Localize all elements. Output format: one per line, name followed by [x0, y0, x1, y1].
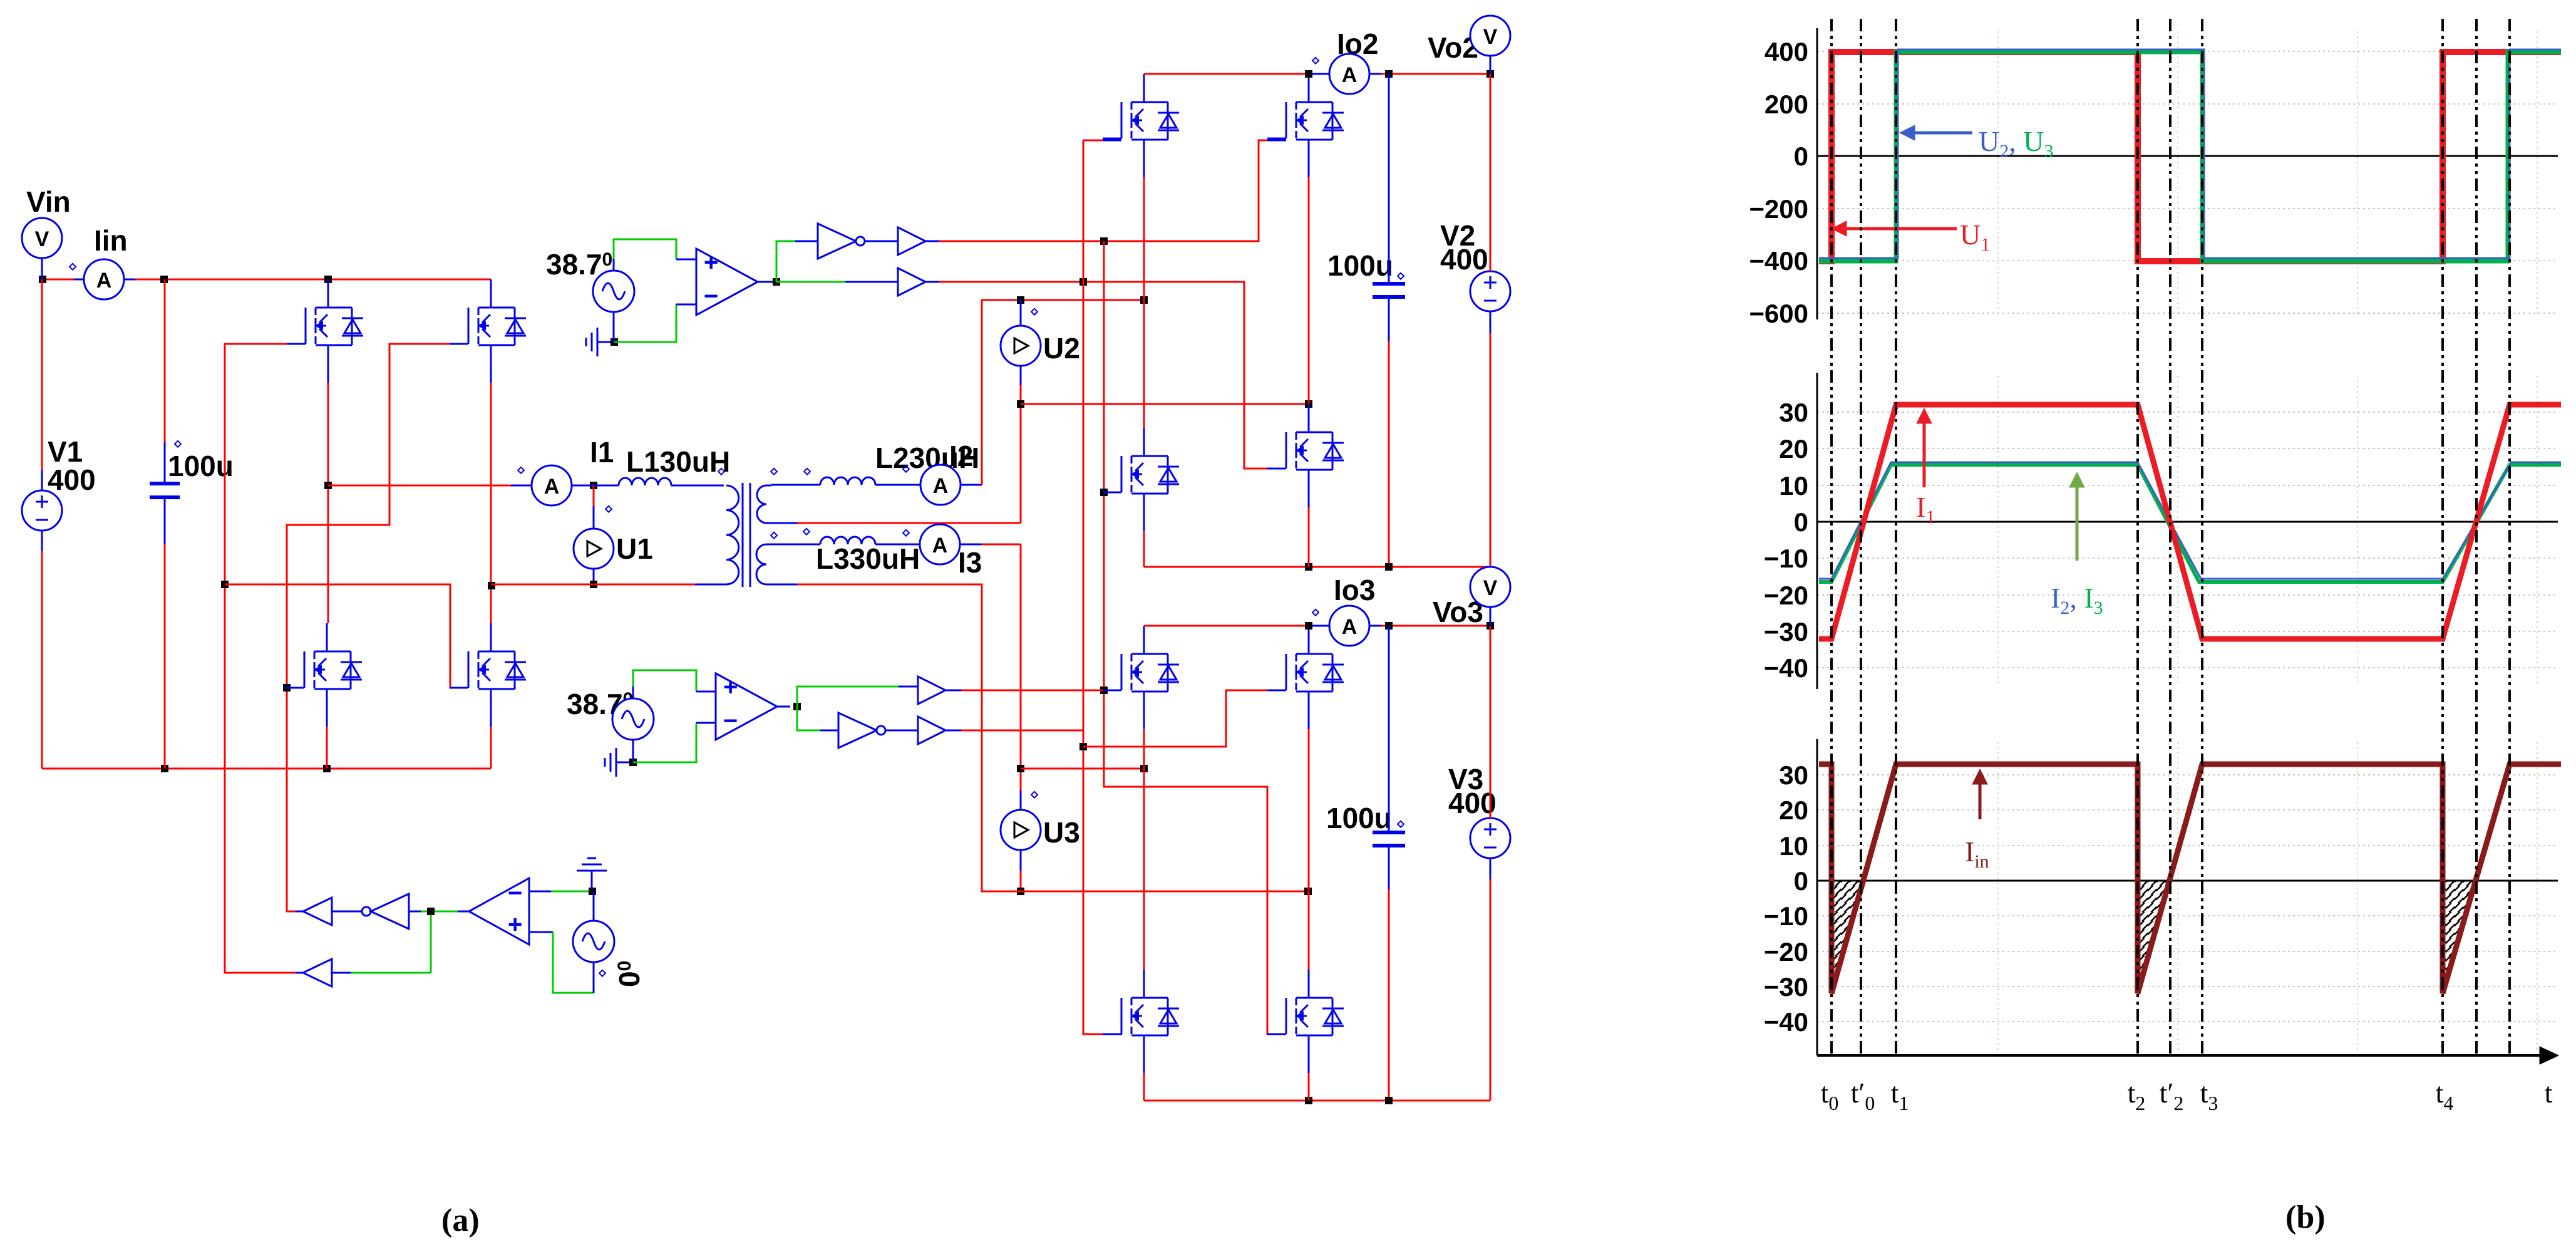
- junction: [1305, 400, 1312, 408]
- ground G3: [591, 871, 593, 891]
- wire gate net Q2Q3: [287, 344, 468, 911]
- wire L1 to transformer: [671, 485, 724, 487]
- source VS2: [612, 698, 654, 740]
- svg-text:400: 400: [1448, 787, 1497, 819]
- voltmeter U2: [1001, 326, 1041, 366]
- junction: [1100, 687, 1108, 694]
- junction: [793, 703, 801, 710]
- wire W2 bottom: [797, 522, 1021, 524]
- source V2: [1470, 271, 1510, 311]
- plot2 y-axis: [1764, 373, 1817, 689]
- transistor Q4: [450, 623, 526, 727]
- wire W2 top to L2: [771, 484, 820, 486]
- junction: [1486, 622, 1494, 630]
- svg-text:−20: −20: [1764, 581, 1808, 610]
- plot1 grid horizontal: [1817, 51, 2558, 313]
- ground G1: [597, 341, 614, 343]
- transformer T1 secondary winding 2: [757, 485, 771, 523]
- junction: [773, 278, 780, 286]
- wire Q3 source: [326, 727, 328, 769]
- svg-text:U3: U3: [1043, 816, 1080, 849]
- plot2 trace I2 blue: [1819, 462, 2561, 579]
- wire gate riser netB: [1104, 241, 1286, 1034]
- capacitor C2: [1373, 74, 1405, 567]
- svg-text:−400: −400: [1749, 246, 1808, 276]
- transistor Q3: [286, 623, 362, 727]
- source VS3: [573, 921, 614, 962]
- capacitor C1: [150, 279, 181, 769]
- plot1 trace U1 red: [1819, 52, 2561, 261]
- inverter B6i: [818, 224, 856, 259]
- wire B6i-B7: [865, 241, 898, 242]
- svg-text:−10: −10: [1764, 544, 1808, 573]
- plot1 arrow U1: [1832, 221, 1957, 236]
- svg-text:V: V: [35, 227, 49, 251]
- svg-text:(a): (a): [441, 1203, 480, 1238]
- wire VS1 bottom: [613, 312, 615, 342]
- time gridlines dash-dot: [1832, 19, 2510, 1055]
- wire VS2 top: [632, 687, 634, 698]
- wire phase3 left: [1021, 768, 1144, 770]
- svg-text:20: 20: [1779, 795, 1808, 825]
- wire Q1 gate stub: [287, 343, 306, 345]
- plot3 grid horizontal: [1817, 775, 2558, 1022]
- svg-text:10: 10: [1779, 831, 1808, 861]
- junction: [1017, 765, 1024, 772]
- svg-text:+: +: [704, 249, 718, 276]
- wire V1 branch: [41, 269, 43, 279]
- wire A2 out: [777, 706, 790, 708]
- transistor Q1: [287, 279, 363, 383]
- wire b3 left leg: [1143, 729, 1145, 970]
- wire bridge2 top rail: [1144, 73, 1309, 75]
- junction: [1385, 1097, 1393, 1104]
- wire gate run to Q4: [225, 584, 468, 688]
- svg-text:+: +: [723, 673, 738, 701]
- svg-text:A: A: [933, 474, 949, 498]
- svg-text:Vin: Vin: [26, 185, 71, 218]
- voltmeter U3: [1001, 810, 1041, 850]
- op-amp A3: [469, 878, 529, 945]
- svg-text:Io3: Io3: [1334, 574, 1375, 606]
- wire B5-B6: [885, 730, 918, 732]
- junction: [324, 276, 332, 283]
- wire bridge3 top rail: [1144, 625, 1309, 627]
- wire A1 up to B6i: [776, 241, 795, 282]
- wire Q2 gate stub: [450, 343, 468, 345]
- svg-text:30: 30: [1779, 760, 1808, 790]
- transformer T1 secondary winding 3: [756, 544, 771, 584]
- voltmeter Vin: [22, 218, 62, 269]
- wire phase A: [328, 485, 511, 487]
- svg-text:20: 20: [1779, 434, 1808, 464]
- plot3 y-axis: [1764, 739, 1817, 1055]
- junction: [221, 581, 229, 588]
- wire U3 bottom: [1020, 850, 1022, 871]
- svg-text:−200: −200: [1749, 194, 1808, 224]
- plot2 arrow I2I3: [2069, 472, 2084, 561]
- wire B6 out line: [945, 730, 961, 732]
- op-amp A2: [716, 673, 777, 740]
- svg-text:A: A: [932, 534, 948, 557]
- wire B2 in: [409, 911, 421, 913]
- inverter B2: [362, 907, 371, 916]
- buffer B3: [303, 959, 332, 987]
- wire bridge3 bottom rail: [1144, 1100, 1490, 1102]
- buffer B4: [918, 676, 945, 704]
- svg-text:30: 30: [1779, 398, 1808, 427]
- plot1 trace U3 green: [1819, 52, 2561, 261]
- junction: [1017, 296, 1024, 304]
- wire A3 out net: [431, 911, 458, 973]
- wire VS1 top: [613, 259, 615, 271]
- source VS1: [593, 271, 634, 312]
- svg-text:A: A: [1342, 615, 1358, 639]
- svg-text:L130uH: L130uH: [626, 445, 730, 478]
- junction: [1385, 70, 1393, 78]
- ground G2: [616, 762, 632, 764]
- svg-text:I3: I3: [958, 546, 982, 579]
- wire Q8 link: [1083, 690, 1267, 747]
- junction: [1305, 622, 1312, 630]
- plot3 zero line: [1817, 880, 2558, 882]
- wire W3 top to L3: [771, 544, 820, 546]
- junction: [1079, 278, 1087, 286]
- wire Q9 gate stub: [1103, 1034, 1122, 1035]
- wire U2 bottom: [1020, 366, 1022, 385]
- svg-text:−40: −40: [1764, 1007, 1808, 1037]
- wire A3 minus: [529, 891, 551, 893]
- buffer B8: [898, 268, 925, 296]
- wire Q7 gate stub: [1103, 690, 1121, 692]
- wire B4 out line: [945, 690, 961, 692]
- voltmeter U1 wire bottom: [593, 568, 595, 584]
- junction: [1017, 400, 1024, 408]
- wire gate net Q1Q4: [225, 344, 306, 973]
- wire phase2 right: [1021, 403, 1309, 405]
- wire A3 plus: [529, 931, 553, 933]
- junction: [1100, 237, 1108, 245]
- wire B8 line: [939, 282, 1267, 469]
- wire B1 out: [296, 911, 303, 913]
- ammeter Iin: [70, 259, 135, 299]
- transistor Q9: [1103, 970, 1179, 1073]
- voltmeter U3 stub: [1020, 790, 1022, 810]
- svg-text:Iin: Iin: [94, 224, 128, 257]
- svg-text:L330uH: L330uH: [816, 542, 920, 575]
- voltmeter U1: [574, 529, 614, 569]
- wire Q1-Q3 leg: [327, 383, 329, 623]
- svg-text:0: 0: [1794, 507, 1808, 537]
- wire b2 right leg: [1308, 177, 1310, 404]
- wire Q4 source: [490, 727, 492, 769]
- junction: [1486, 70, 1494, 78]
- junction: [1305, 70, 1312, 78]
- junction: [1385, 563, 1393, 571]
- voltmeter U1 wire top: [593, 485, 595, 506]
- polarity dots: [718, 469, 810, 539]
- svg-text:A: A: [1342, 63, 1358, 87]
- wire Q6t gate stub: [1267, 140, 1286, 142]
- wire Q4t gate lead: [1083, 140, 1103, 142]
- transistor Q2: [450, 279, 526, 383]
- svg-text:A: A: [96, 269, 112, 293]
- plot2 trace I1 red: [1819, 405, 2561, 639]
- wire Q4 gate stub: [450, 687, 468, 689]
- svg-text:0: 0: [1794, 866, 1808, 896]
- transistor Q7: [1103, 626, 1179, 729]
- wire V3 chain: [1490, 626, 1492, 818]
- junction: [283, 684, 291, 692]
- plot3 trace Iin: [1819, 764, 2561, 993]
- transistor Q5: [1103, 428, 1179, 531]
- junction: [1079, 743, 1087, 750]
- junction: [629, 759, 637, 766]
- wire bridge2 bottom rail: [1144, 566, 1490, 568]
- svg-text:−600: −600: [1749, 299, 1808, 328]
- plot2 grid horizontal: [1817, 412, 2558, 668]
- svg-text:10: 10: [1779, 471, 1808, 500]
- junction: [590, 581, 597, 588]
- wire B7 out: [925, 241, 939, 242]
- wire Q2-Q4 leg: [490, 383, 492, 623]
- plot3 hatch t0: [1832, 881, 1861, 993]
- op-amp A1: [696, 249, 758, 315]
- wire I2 up: [982, 300, 1144, 485]
- ammeter I1: [511, 465, 589, 505]
- wire V2 chain: [1490, 74, 1492, 271]
- wire phase B to transformer: [491, 584, 695, 586]
- svg-text:0: 0: [1794, 142, 1808, 171]
- svg-text:−30: −30: [1764, 617, 1808, 646]
- junction: [427, 908, 435, 915]
- wire Q8 gate stub: [1267, 690, 1286, 692]
- wire VS3 top: [593, 891, 595, 921]
- voltmeter U2 stub: [1020, 300, 1022, 326]
- transistor Q6: [1267, 404, 1344, 507]
- transistor Q10: [1267, 970, 1344, 1073]
- voltmeter Vo2: [1470, 16, 1510, 74]
- junction: [1304, 888, 1312, 895]
- source V3: [1470, 818, 1510, 858]
- buffer B1: [303, 898, 332, 925]
- source V1: [22, 490, 62, 531]
- svg-text:−: −: [704, 282, 718, 310]
- svg-text:100u: 100u: [168, 450, 234, 482]
- plot1 y-axis: [1749, 28, 1817, 328]
- junction node B: [488, 582, 495, 589]
- wire V1 bottom: [41, 531, 43, 551]
- svg-text:400: 400: [1765, 37, 1808, 66]
- ammeter Io3: [1312, 606, 1381, 646]
- junction: [1140, 296, 1148, 304]
- ammeter I3: [875, 524, 982, 564]
- junction: [1305, 563, 1312, 571]
- svg-text:A: A: [544, 475, 560, 499]
- wire B8 out: [925, 281, 939, 283]
- x tick labels: [1821, 1077, 2553, 1114]
- svg-text:U1: U1: [616, 532, 653, 565]
- svg-text:U2, U3: U2, U3: [1979, 125, 2053, 162]
- svg-text:−40: −40: [1764, 653, 1808, 683]
- svg-text:t: t: [2545, 1077, 2553, 1109]
- ammeter Io2: [1312, 54, 1381, 94]
- plot1 zero line: [1817, 155, 2558, 157]
- inductor L1: [619, 478, 671, 485]
- wire b3 right leg: [1308, 729, 1310, 970]
- wire B7 line: [939, 140, 1267, 241]
- plot1 trace U2 blue: [1819, 49, 2561, 258]
- wire B3 out: [296, 972, 303, 974]
- junction: [161, 765, 168, 772]
- svg-text:U2: U2: [1043, 332, 1080, 365]
- junction: [1100, 489, 1108, 496]
- transformer T1 primary winding: [726, 485, 739, 584]
- junction: [590, 482, 597, 489]
- plot2 trace I3 green: [1819, 465, 2561, 582]
- buffer B7: [898, 227, 925, 255]
- plot3 hatch t4: [2443, 881, 2475, 993]
- wire b2 left leg: [1143, 177, 1145, 428]
- junction: [39, 276, 46, 283]
- svg-text:−10: −10: [1764, 901, 1808, 931]
- plot3 x-axis: [1817, 1047, 2558, 1064]
- svg-text:100u: 100u: [1327, 249, 1393, 282]
- svg-text:(b): (b): [2285, 1200, 2326, 1235]
- transistor Q4t: [1103, 74, 1179, 177]
- svg-text:I1: I1: [590, 436, 614, 469]
- transformer T1 core: [742, 483, 744, 587]
- junction: [1385, 622, 1393, 630]
- svg-text:+: +: [508, 911, 522, 938]
- voltmeter Vo3: [1470, 567, 1510, 626]
- svg-text:−: −: [723, 707, 738, 735]
- wire I1 to L1: [589, 485, 619, 487]
- wire Q3 gate stub: [286, 687, 304, 689]
- plot3 arrow Iin: [1972, 769, 1987, 819]
- svg-text:−20: −20: [1764, 937, 1808, 966]
- inverter B5: [838, 713, 877, 748]
- wire A1 out: [758, 281, 775, 283]
- wire top rail primary: [43, 279, 74, 281]
- wire Q5 gate stub: [1103, 492, 1121, 494]
- svg-text:400: 400: [1440, 243, 1488, 276]
- wire VS2 bottom: [632, 740, 634, 762]
- plot1 arrow U2U3: [1900, 125, 1972, 140]
- svg-text:I2: I2: [949, 440, 973, 472]
- junction: [1140, 765, 1148, 772]
- wire Q6 gate stub: [1267, 468, 1286, 470]
- plot2 arrow I1: [1917, 408, 1932, 487]
- wire A2 up to B4: [797, 687, 899, 707]
- inductor L2: [820, 477, 875, 485]
- buffer B6: [918, 717, 945, 744]
- plot2 zero line: [1817, 521, 2558, 523]
- junction: [589, 888, 596, 895]
- junction: [1305, 1097, 1312, 1104]
- svg-text:−: −: [508, 879, 522, 907]
- svg-text:400: 400: [48, 464, 96, 496]
- junction: [1017, 888, 1024, 895]
- junction node A: [324, 482, 332, 489]
- transistor Q6t: [1267, 74, 1344, 177]
- junction: [323, 765, 331, 772]
- wire B3 in: [331, 972, 351, 974]
- svg-text:V: V: [1483, 25, 1498, 49]
- plot3 hatch t2: [2138, 881, 2168, 993]
- inductor L3: [820, 537, 875, 544]
- wire gate riser netA: [1083, 140, 1103, 1034]
- junction: [160, 276, 168, 283]
- junction: [611, 338, 618, 346]
- transistor Q8: [1267, 626, 1344, 729]
- wire W3 bottom: [771, 584, 797, 586]
- source VS3 label: [613, 961, 646, 987]
- svg-text:200: 200: [1765, 90, 1808, 119]
- wire B2-B1: [332, 911, 362, 913]
- svg-text:100u: 100u: [1326, 802, 1392, 834]
- capacitor C3: [1373, 626, 1405, 1101]
- wire A1 to B8: [776, 281, 845, 283]
- svg-text:V: V: [1483, 576, 1498, 600]
- svg-text:−30: −30: [1764, 972, 1808, 1002]
- ammeter I2: [875, 465, 982, 505]
- wire bottom rail primary: [42, 768, 491, 770]
- wire A2 down to B5: [797, 707, 820, 730]
- plot grid vertical: [1998, 31, 2537, 1052]
- wire I3 down: [982, 544, 1021, 546]
